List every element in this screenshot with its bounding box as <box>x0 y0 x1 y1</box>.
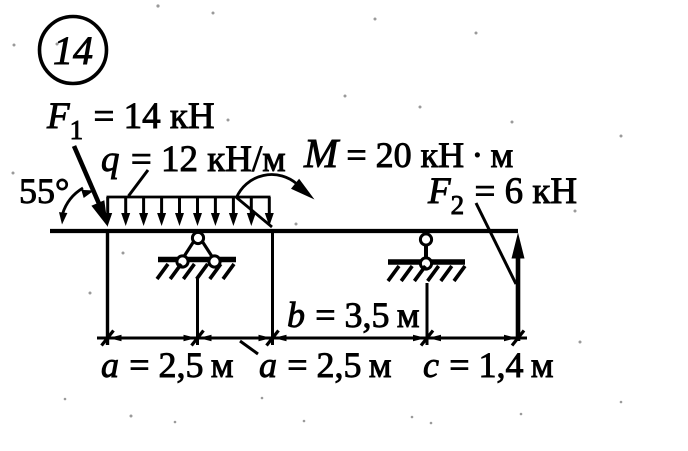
leader line F2 <box>476 203 516 284</box>
right roller support (pin on one roller) <box>388 234 465 281</box>
svg-text:F1 = 14 кН: F1 = 14 кН <box>46 96 215 145</box>
extension line at F1 point <box>106 232 109 345</box>
leader line q <box>129 170 149 196</box>
extension line below left support <box>196 278 199 345</box>
angle arc 55 deg <box>59 188 94 225</box>
svg-text:M = 20 кН · м: M = 20 кН · м <box>303 130 513 176</box>
dimension line <box>97 337 527 340</box>
svg-text:a = 2,5 м: a = 2,5 м <box>259 345 392 385</box>
svg-text:14: 14 <box>53 28 93 73</box>
svg-text:b = 3,5 м: b = 3,5 м <box>287 295 420 335</box>
left roller support (pin on two rollers) <box>157 232 236 279</box>
extension line below right support <box>426 283 429 345</box>
svg-text:c = 1,4 м: c = 1,4 м <box>423 345 553 385</box>
force F2 arrow <box>512 233 525 342</box>
svg-text:a = 2,5 м: a = 2,5 м <box>101 345 234 385</box>
moment M curved arrow <box>237 175 315 227</box>
distributed load arrows <box>103 197 274 226</box>
beam <box>50 229 518 233</box>
distributed load q top line <box>107 196 271 199</box>
extension line at load end <box>271 232 274 345</box>
svg-text:F2 = 6 кН: F2 = 6 кН <box>427 171 577 220</box>
svg-text:55°: 55° <box>19 171 69 211</box>
force F1 arrow <box>74 146 108 227</box>
dimension ticks and arrowheads <box>102 331 525 346</box>
problem number circle 14 <box>40 17 107 84</box>
leader line for second a label <box>240 341 258 354</box>
svg-text:q = 12 кН/м: q = 12 кН/м <box>101 139 286 180</box>
